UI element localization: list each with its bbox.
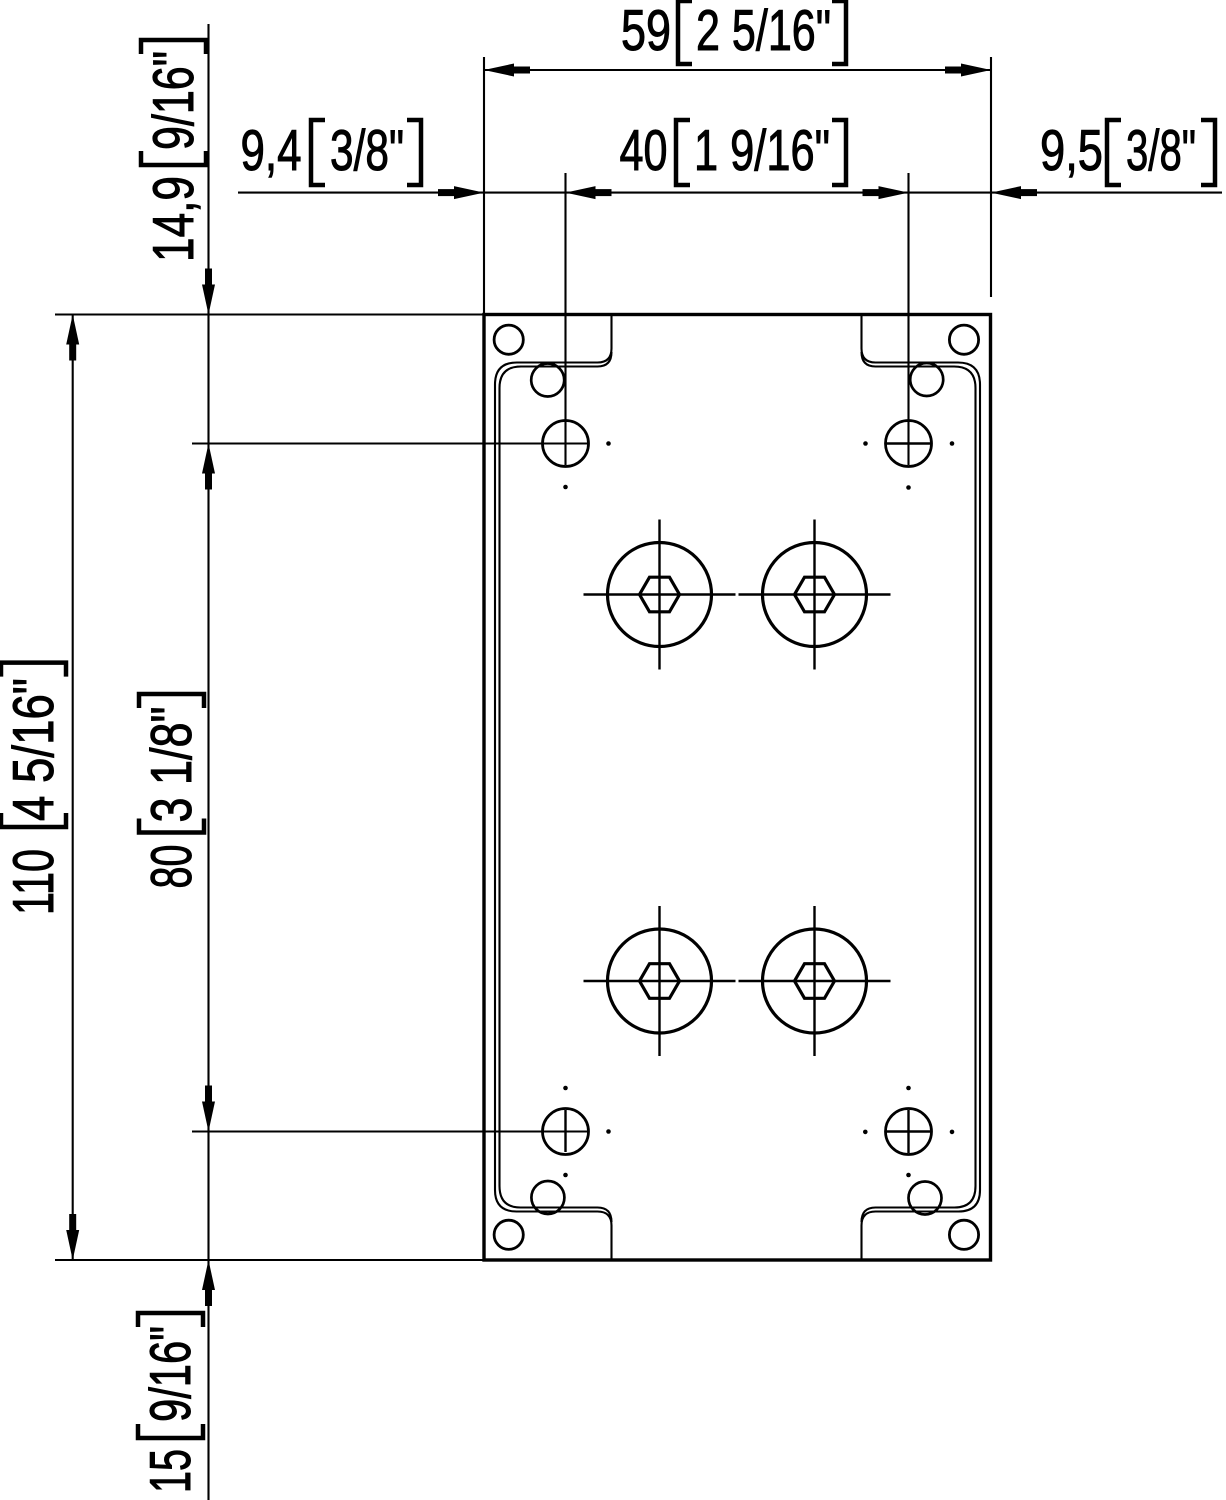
bump circle top-right bbox=[910, 363, 943, 396]
corner circle top-left bbox=[494, 325, 523, 354]
extension line plate left edge top bbox=[483, 57, 485, 315]
dimension text 59 [2 5/16"] bbox=[621, 0, 846, 64]
big hole top-left circle bbox=[608, 543, 712, 647]
dimension line 9,4 / 40 / 9,5 bbox=[238, 192, 1222, 194]
inner contour left inner line bbox=[500, 352, 612, 1222]
svg-text:9/16": 9/16" bbox=[142, 51, 206, 150]
big hole bottom-left circle bbox=[608, 929, 712, 1033]
svg-text:4 5/16": 4 5/16" bbox=[2, 678, 66, 821]
inner contour left outer line bbox=[495, 315, 612, 1261]
dimension line 110 bbox=[72, 315, 74, 1261]
arrow 14,9 down tip bbox=[202, 285, 215, 315]
dimension text 15 [9/16"] (rotated) bbox=[138, 1313, 203, 1493]
screw hole top-right horizontal crosshair bbox=[886, 442, 931, 444]
corner circle bottom-left bbox=[494, 1220, 523, 1249]
svg-text:1 9/16": 1 9/16" bbox=[694, 119, 830, 183]
svg-text:2 5/16": 2 5/16" bbox=[696, 0, 831, 63]
inner contour right outer line bbox=[862, 315, 981, 1261]
arrow 59 left bbox=[484, 64, 514, 77]
big hole top-left crosshair bbox=[584, 520, 736, 670]
dimension text 110 [4 5/16"] (rotated) bbox=[1, 663, 66, 915]
dimension text 9,4 [3/8"] bbox=[241, 119, 422, 185]
screw hole bottom-left vertical crosshair bbox=[564, 1110, 566, 1152]
corner circle bottom-right bbox=[949, 1220, 978, 1249]
inner contour right inner line bbox=[862, 352, 976, 1222]
svg-text:9,4: 9,4 bbox=[241, 119, 302, 183]
extension line screw hole right column bbox=[907, 173, 909, 465]
center mark dots top-left hole bbox=[606, 441, 611, 446]
arrow 80 bottom bbox=[202, 1102, 215, 1132]
svg-text:9/16": 9/16" bbox=[139, 1326, 203, 1422]
arrow 80 top bbox=[202, 444, 215, 474]
extension line plate bottom edge bbox=[55, 1259, 484, 1261]
screw hole top-left circle bbox=[543, 421, 589, 467]
dimension text 80 [3 1/8"] (rotated) bbox=[139, 694, 204, 889]
extension line plate top edge bbox=[55, 313, 484, 315]
dimension text 14,9 [9/16"] (rotated) bbox=[141, 40, 206, 262]
bump circle bottom-left bbox=[531, 1181, 564, 1214]
center mark dots top-right hole bbox=[863, 441, 868, 446]
svg-text:80: 80 bbox=[140, 845, 204, 889]
arrow 110 top bbox=[66, 315, 79, 345]
big hole top-left hexagon bbox=[640, 577, 680, 612]
dimension line 59 bbox=[484, 69, 991, 71]
screw hole top-right circle bbox=[886, 421, 932, 467]
svg-text:3/8": 3/8" bbox=[330, 119, 404, 183]
plate outline bbox=[484, 315, 991, 1261]
dimension line 14,9 / 80 / 15 bbox=[207, 24, 209, 1500]
leader line bottom hole row bbox=[192, 1130, 588, 1132]
arrow 9,5 left tip bbox=[991, 186, 1021, 199]
big hole top-right hexagon bbox=[795, 577, 835, 612]
arrow 15 up tip bbox=[202, 1260, 215, 1290]
svg-text:40: 40 bbox=[620, 119, 668, 183]
dimension text 40 [1 9/16"] bbox=[620, 119, 847, 185]
big hole bottom-right circle bbox=[763, 929, 867, 1033]
center mark dots bottom-left hole bbox=[563, 1086, 568, 1091]
svg-text:15: 15 bbox=[139, 1449, 203, 1493]
center mark dots bottom-right hole bbox=[906, 1086, 911, 1091]
extension line plate right edge top bbox=[990, 57, 992, 297]
screw hole bottom-left circle bbox=[543, 1109, 589, 1155]
arrow 9,4 right tip bbox=[454, 186, 484, 199]
arrow 40 right bbox=[879, 186, 909, 199]
arrow 59 right bbox=[961, 64, 991, 77]
big hole top-right circle bbox=[763, 543, 867, 647]
dimension text 9,5 [3/8"] bbox=[1040, 119, 1215, 185]
bump circle bottom-right bbox=[909, 1182, 942, 1215]
svg-text:14,9: 14,9 bbox=[142, 176, 206, 262]
big hole bottom-left crosshair bbox=[584, 906, 736, 1056]
big hole bottom-right hexagon bbox=[795, 964, 835, 999]
corner circle top-right bbox=[949, 325, 978, 354]
svg-text:9,5: 9,5 bbox=[1040, 119, 1103, 183]
svg-text:110: 110 bbox=[2, 849, 66, 915]
big hole bottom-left hexagon bbox=[640, 964, 680, 999]
big hole bottom-right crosshair bbox=[739, 906, 891, 1056]
bump circle top-left bbox=[531, 364, 564, 397]
svg-text:59: 59 bbox=[621, 0, 671, 63]
arrow 40 left bbox=[566, 186, 596, 199]
extension line screw hole left column bbox=[564, 173, 566, 465]
screw hole bottom-right circle bbox=[886, 1109, 932, 1155]
screw hole bottom-right crosshair bbox=[887, 1110, 932, 1153]
leader line top hole row bbox=[192, 442, 588, 444]
arrow 110 bottom bbox=[66, 1230, 79, 1260]
svg-text:3/8": 3/8" bbox=[1126, 119, 1196, 183]
svg-text:3 1/8": 3 1/8" bbox=[140, 707, 204, 823]
big hole top-right crosshair bbox=[739, 520, 891, 670]
